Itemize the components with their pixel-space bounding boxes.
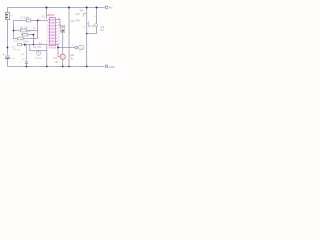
svg-text:10u: 10u [11, 58, 14, 60]
svg-text:RB4: RB4 [52, 44, 56, 46]
svg-text:4k7: 4k7 [100, 29, 105, 32]
svg-text:R1 10k: R1 10k [20, 28, 28, 30]
capacitor C4 by rail [25, 45, 28, 67]
wire IC pin9 right stub down [56, 44, 59, 47]
svg-text:5: 5 [46, 31, 47, 33]
wire VDD drop x46.5 [46, 8, 48, 18]
IC pin names right column [51, 18, 55, 46]
svg-text:11: 11 [58, 40, 60, 42]
wire second left vertical [13, 21, 15, 39]
IC pin stubs [48, 20, 58, 45]
IC pin numbers left [46, 18, 47, 45]
wire row G [30, 50, 47, 52]
junction dots [7, 7, 98, 68]
wire row C [14, 30, 38, 32]
switch S1 on x86.7 [84, 13, 89, 25]
svg-text:12: 12 [58, 37, 60, 39]
resistor R1 on row C [21, 29, 27, 32]
svg-text:RB6: RB6 [52, 38, 56, 40]
lamp LA1 (red circle) [60, 54, 65, 59]
wire vertical x69 [68, 8, 70, 67]
wire left rail and bottom rail [8, 20, 105, 67]
svg-text:14: 14 [58, 31, 60, 33]
svg-text:13: 13 [58, 34, 60, 36]
wire link y33.5 [87, 33, 97, 35]
svg-text:BC547: BC547 [35, 58, 42, 60]
svg-text:18: 18 [58, 18, 60, 20]
svg-text:RA0: RA0 [52, 22, 56, 25]
svg-text:1: 1 [46, 18, 47, 20]
svg-text:100n: 100n [23, 42, 29, 44]
svg-text:OS1: OS1 [52, 26, 56, 28]
wire x58 down to lamp left [58, 48, 60, 57]
wire row B to IC [14, 20, 48, 22]
svg-text:6: 6 [46, 34, 47, 36]
wire vertical x37.5 [37, 21, 39, 39]
svg-text:LA1: LA1 [53, 57, 58, 60]
transistor Q1 [36, 51, 41, 56]
svg-text:C2 100n: C2 100n [20, 16, 30, 19]
wire row H output [58, 47, 75, 49]
wire vertical x33.5 [33, 35, 35, 45]
wire vertical x46.8 to ground rail [46, 45, 48, 67]
capacitor box on row F [18, 43, 22, 46]
svg-text:1: 1 [64, 26, 65, 28]
svg-text:RB5: RB5 [52, 41, 56, 43]
svg-text:1u: 1u [20, 62, 22, 64]
svg-text:16F84A: 16F84A [49, 47, 57, 50]
wire vertical x86.7 [86, 8, 88, 67]
svg-text:RB7: RB7 [52, 35, 56, 37]
net flag GND bottom right [105, 65, 115, 69]
svg-text:OS2: OS2 [52, 29, 56, 31]
svg-text:15: 15 [58, 28, 60, 30]
wire row D [21, 34, 34, 36]
IC pin numbers right [58, 18, 60, 45]
svg-text:RA1: RA1 [52, 18, 56, 21]
svg-text:RB1: RB1 [76, 14, 81, 16]
connector J1 [6, 12, 10, 19]
resistor on row E [18, 37, 23, 40]
wire row E [14, 38, 38, 40]
svg-text:c6: c6 [72, 45, 74, 47]
svg-text:RB2: RB2 [76, 21, 81, 23]
svg-text:17: 17 [58, 21, 60, 23]
svg-text:1k: 1k [93, 16, 95, 18]
switch S2 on x96.5 [93, 16, 97, 27]
resistor on row D [23, 34, 28, 37]
wire IC pin1 to lamp chain [56, 20, 61, 27]
net flag OUT row H [75, 45, 84, 53]
svg-text:16F84A: 16F84A [47, 14, 56, 17]
component on lamp chain (box) [61, 26, 66, 33]
svg-text:RL1 5V: RL1 5V [33, 46, 41, 49]
wire lamp chain vertical [62, 33, 64, 55]
svg-text:9: 9 [46, 43, 47, 45]
svg-text:10: 10 [58, 43, 60, 45]
svg-text:2: 2 [46, 21, 47, 23]
capacitor C2 on row B [26, 19, 31, 22]
svg-text:GND: GND [109, 65, 115, 69]
svg-text:10uF: 10uF [13, 41, 19, 43]
svg-text:7: 7 [46, 37, 47, 39]
svg-text:4: 4 [46, 28, 47, 30]
capacitor C3 on left rail [3, 54, 10, 59]
svg-text:OU: OU [79, 48, 83, 50]
wire row F [22, 44, 47, 46]
svg-text:4k7: 4k7 [71, 20, 76, 23]
svg-text:IC1: IC1 [41, 15, 46, 18]
IC U1 body [50, 18, 56, 46]
svg-text:16: 16 [58, 24, 60, 26]
wire top rail [8, 8, 105, 13]
svg-text:3: 3 [46, 24, 47, 26]
wire lamp bottom to rail [62, 59, 64, 66]
svg-text:S1 S2: S1 S2 [88, 25, 95, 28]
wire vertical x96.5 [96, 8, 98, 34]
net flag 9V top right [105, 6, 113, 10]
IC pin names left column [50, 18, 54, 46]
svg-text:5V: 5V [55, 61, 58, 64]
svg-text:8: 8 [46, 40, 47, 42]
wire vertical x29.5 [29, 45, 31, 51]
